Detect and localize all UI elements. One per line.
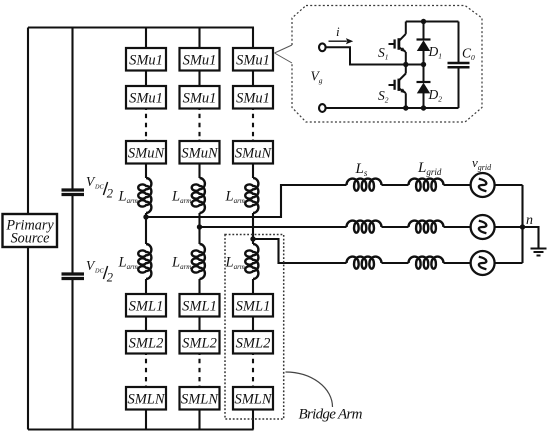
svg-text:SML1: SML1: [236, 299, 271, 315]
svg-text:2: 2: [107, 186, 113, 200]
svg-text:DC: DC: [94, 183, 104, 190]
svg-text:SMu1: SMu1: [236, 91, 270, 107]
svg-text:SMuN: SMuN: [128, 146, 166, 162]
svg-text:SML1: SML1: [182, 299, 217, 315]
svg-text:SMuN: SMuN: [235, 146, 273, 162]
svg-text:SMu1: SMu1: [129, 53, 163, 69]
svg-text:SML2: SML2: [182, 336, 217, 352]
svg-text:SML2: SML2: [129, 336, 164, 352]
svg-text:SMu1: SMu1: [236, 53, 270, 69]
svg-text:SML2: SML2: [236, 336, 271, 352]
svg-text:SMuN: SMuN: [181, 146, 219, 162]
svg-text:SMLN: SMLN: [181, 392, 219, 408]
svg-text:n: n: [526, 213, 533, 228]
svg-text:SMu1: SMu1: [129, 91, 163, 107]
svg-text:SML1: SML1: [129, 299, 164, 315]
svg-text:i: i: [336, 24, 340, 39]
svg-text:SMu1: SMu1: [183, 91, 217, 107]
svg-text:DC: DC: [94, 267, 104, 274]
svg-text:2: 2: [107, 270, 113, 284]
svg-text:Bridge Arm: Bridge Arm: [299, 407, 363, 423]
svg-text:SMLN: SMLN: [127, 392, 165, 408]
svg-text:SMLN: SMLN: [234, 392, 272, 408]
svg-text:Source: Source: [11, 231, 50, 247]
svg-text:SMu1: SMu1: [183, 53, 217, 69]
